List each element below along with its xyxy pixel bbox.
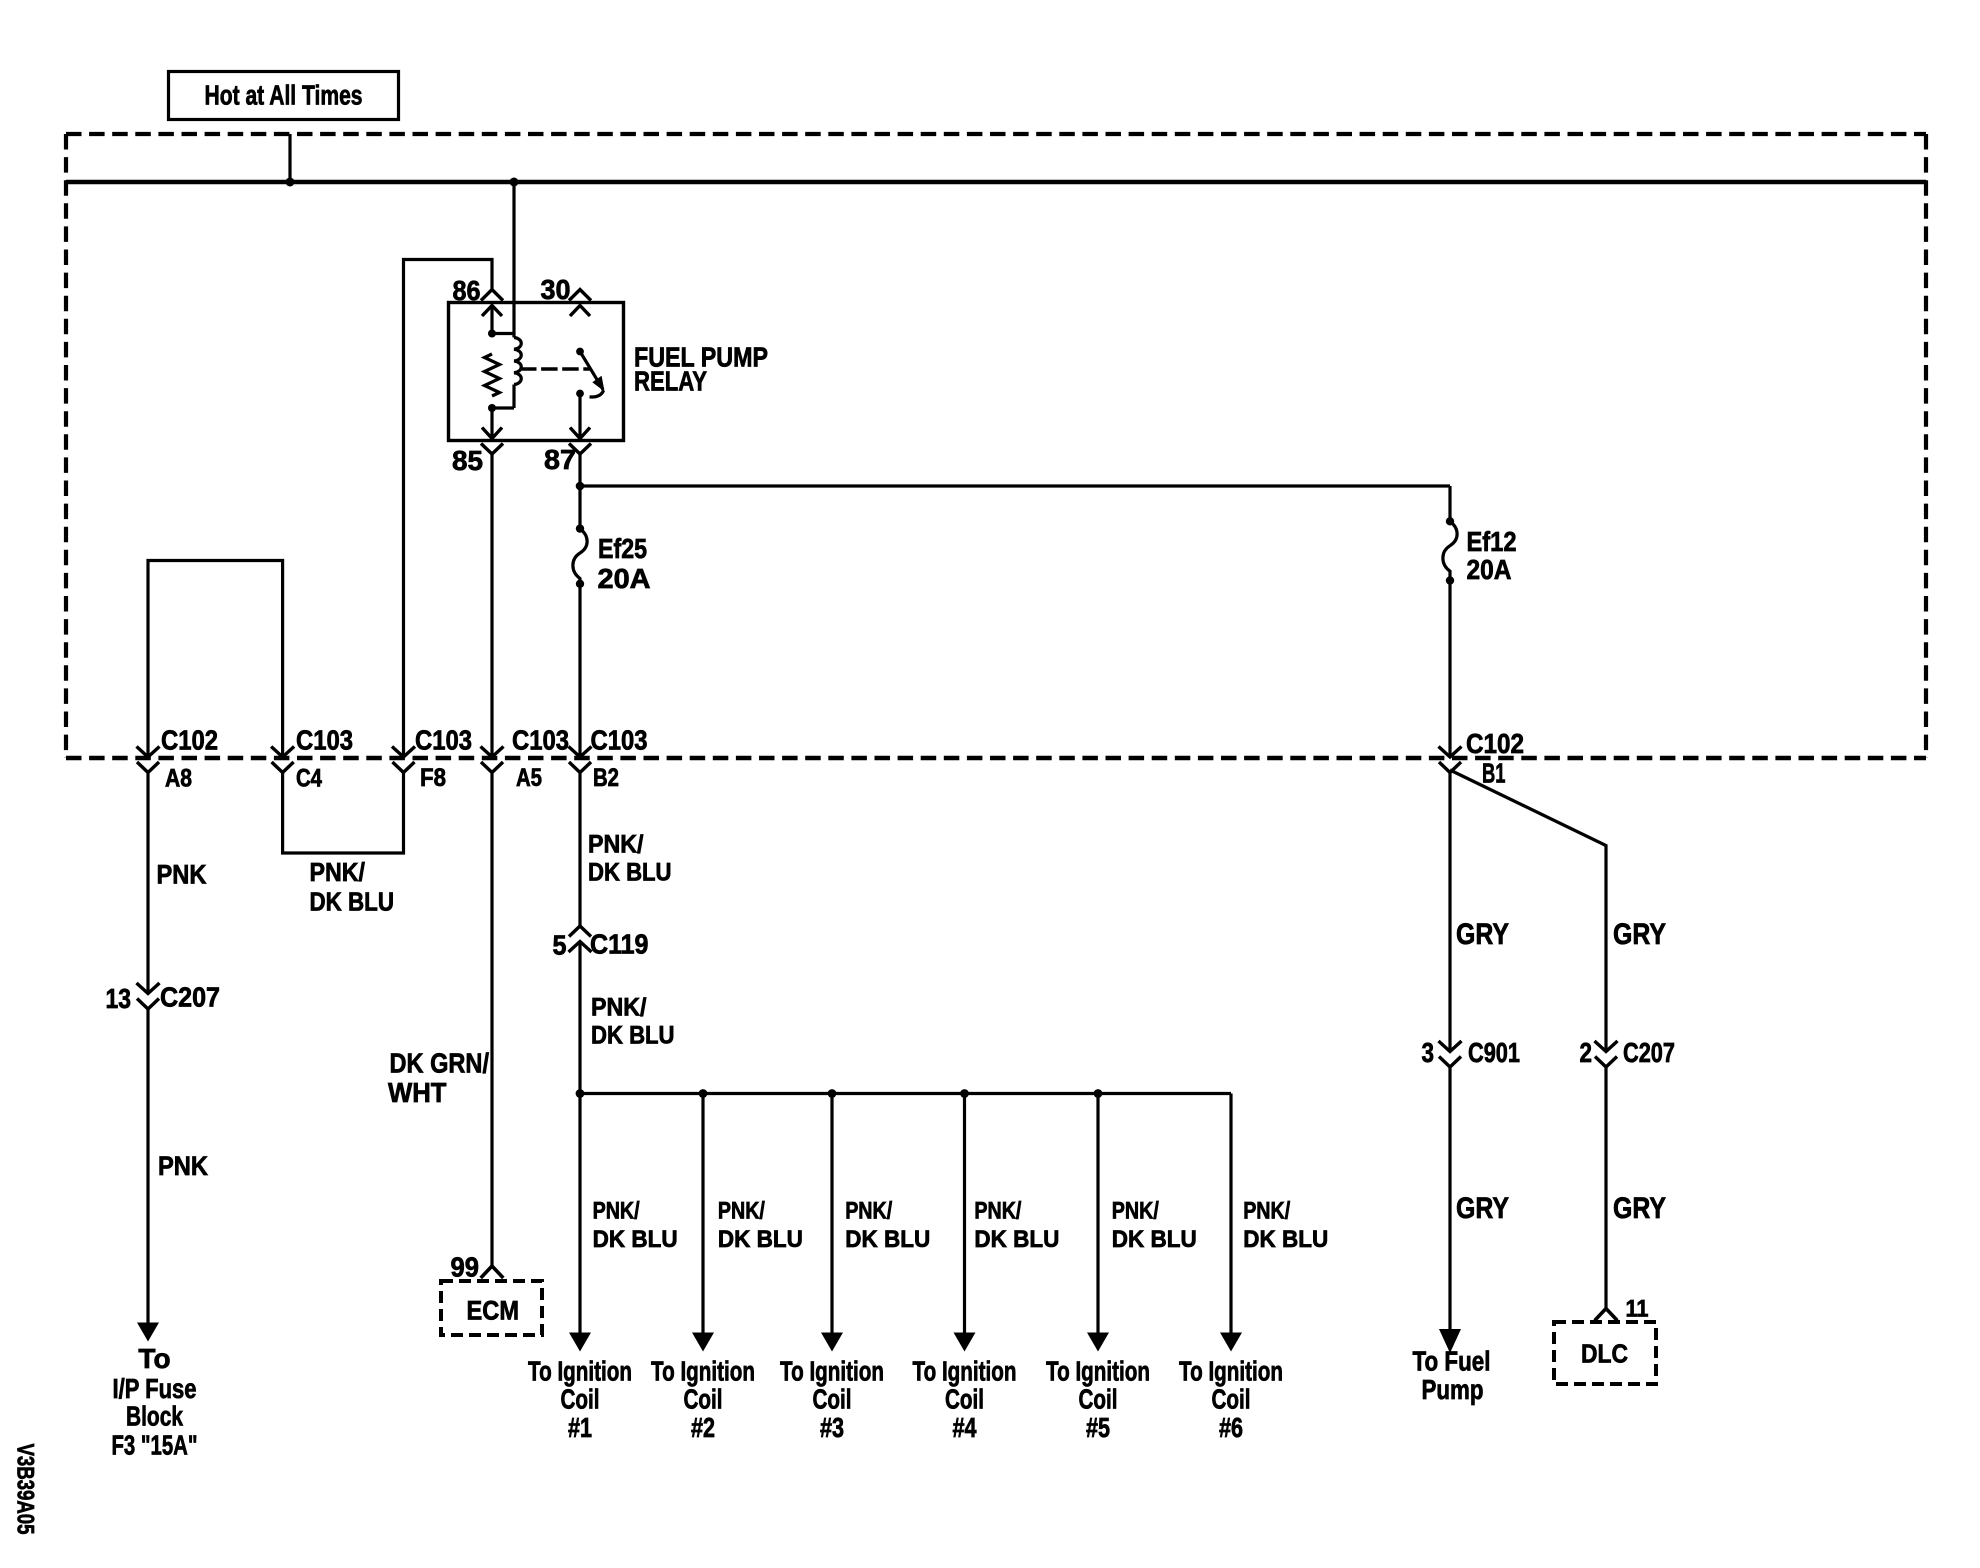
svg-text:To Ignition: To Ignition: [651, 1356, 755, 1387]
svg-text:Block: Block: [126, 1401, 183, 1432]
svg-text:PNK/: PNK/: [310, 857, 366, 887]
svg-text:C901: C901: [1468, 1037, 1520, 1068]
svg-text:PNK/: PNK/: [588, 831, 644, 859]
svg-text:30: 30: [541, 274, 571, 305]
svg-text:Coil: Coil: [1212, 1384, 1251, 1415]
svg-text:DK BLU: DK BLU: [310, 887, 395, 917]
svg-text:20A: 20A: [598, 563, 651, 594]
svg-text:Ef25: Ef25: [598, 533, 647, 564]
svg-text:B1: B1: [1482, 758, 1506, 789]
svg-text:11: 11: [1626, 1296, 1649, 1323]
svg-text:PNK/: PNK/: [1243, 1198, 1290, 1225]
svg-text:#5: #5: [1086, 1412, 1110, 1443]
svg-text:GRY: GRY: [1613, 1192, 1666, 1225]
svg-text:Coil: Coil: [561, 1384, 600, 1415]
svg-text:Ef12: Ef12: [1467, 526, 1517, 557]
svg-text:20A: 20A: [1467, 554, 1512, 585]
svg-text:Coil: Coil: [813, 1384, 852, 1415]
svg-text:RELAY: RELAY: [634, 366, 707, 397]
svg-text:DK BLU: DK BLU: [974, 1226, 1059, 1253]
svg-text:#3: #3: [820, 1412, 844, 1443]
svg-text:PNK/: PNK/: [591, 994, 647, 1022]
svg-text:WHT: WHT: [388, 1077, 447, 1108]
svg-text:#4: #4: [953, 1412, 977, 1443]
svg-text:PNK/: PNK/: [718, 1198, 765, 1225]
svg-text:To Ignition: To Ignition: [913, 1356, 1017, 1387]
svg-text:DK BLU: DK BLU: [1112, 1226, 1197, 1253]
svg-text:DK GRN/: DK GRN/: [390, 1048, 490, 1079]
svg-text:13: 13: [106, 983, 132, 1014]
svg-text:Pump: Pump: [1422, 1374, 1484, 1405]
svg-text:I/P Fuse: I/P Fuse: [113, 1373, 197, 1404]
svg-text:C207: C207: [1623, 1037, 1675, 1068]
svg-text:To Ignition: To Ignition: [780, 1356, 884, 1387]
svg-text:Coil: Coil: [684, 1384, 723, 1415]
svg-text:#1: #1: [568, 1412, 592, 1443]
svg-text:C103: C103: [591, 725, 648, 756]
svg-text:A8: A8: [165, 765, 192, 793]
svg-text:C103: C103: [512, 725, 569, 756]
svg-text:C207: C207: [160, 982, 220, 1013]
svg-text:GRY: GRY: [1456, 1192, 1509, 1225]
svg-text:PNK/: PNK/: [593, 1198, 640, 1225]
svg-text:DK BLU: DK BLU: [1243, 1226, 1328, 1253]
svg-text:ECM: ECM: [467, 1296, 520, 1326]
svg-text:#6: #6: [1219, 1412, 1243, 1443]
svg-text:GRY: GRY: [1456, 918, 1509, 951]
svg-text:C119: C119: [590, 929, 649, 960]
svg-text:To Ignition: To Ignition: [1046, 1356, 1150, 1387]
svg-text:DLC: DLC: [1581, 1339, 1628, 1369]
svg-text:C103: C103: [415, 725, 472, 756]
svg-text:F8: F8: [420, 764, 446, 792]
svg-text:PNK/: PNK/: [845, 1198, 892, 1225]
svg-text:PNK: PNK: [157, 860, 207, 890]
svg-text:5: 5: [553, 930, 567, 961]
svg-text:PNK: PNK: [158, 1151, 208, 1181]
svg-text:DK BLU: DK BLU: [718, 1226, 803, 1253]
svg-text:To Ignition: To Ignition: [528, 1356, 632, 1387]
svg-text:PNK/: PNK/: [974, 1198, 1021, 1225]
svg-text:V3B39A05: V3B39A05: [12, 1444, 39, 1535]
svg-text:C102: C102: [1466, 728, 1524, 759]
svg-text:To Fuel: To Fuel: [1413, 1346, 1491, 1377]
svg-text:DK BLU: DK BLU: [845, 1226, 930, 1253]
svg-text:85: 85: [452, 445, 483, 476]
svg-text:GRY: GRY: [1613, 918, 1666, 951]
svg-text:Hot at All Times: Hot at All Times: [205, 80, 363, 111]
svg-text:F3 "15A": F3 "15A": [112, 1430, 198, 1461]
svg-text:To: To: [138, 1343, 170, 1374]
svg-text:C103: C103: [296, 725, 353, 756]
svg-text:DK BLU: DK BLU: [593, 1226, 678, 1253]
svg-text:3: 3: [1422, 1037, 1435, 1068]
svg-text:DK BLU: DK BLU: [588, 859, 672, 887]
svg-text:PNK/: PNK/: [1112, 1198, 1159, 1225]
svg-text:DK BLU: DK BLU: [591, 1022, 675, 1050]
svg-text:2: 2: [1580, 1037, 1593, 1068]
svg-text:#2: #2: [691, 1412, 715, 1443]
svg-text:87: 87: [544, 444, 576, 475]
svg-text:C102: C102: [161, 725, 218, 756]
svg-text:B2: B2: [593, 764, 619, 792]
svg-text:Coil: Coil: [1079, 1384, 1118, 1415]
svg-text:Coil: Coil: [945, 1384, 984, 1415]
svg-text:99: 99: [451, 1252, 480, 1283]
svg-text:86: 86: [453, 275, 481, 306]
svg-text:A5: A5: [516, 764, 542, 792]
svg-text:C4: C4: [296, 765, 322, 793]
svg-text:To Ignition: To Ignition: [1179, 1356, 1283, 1387]
